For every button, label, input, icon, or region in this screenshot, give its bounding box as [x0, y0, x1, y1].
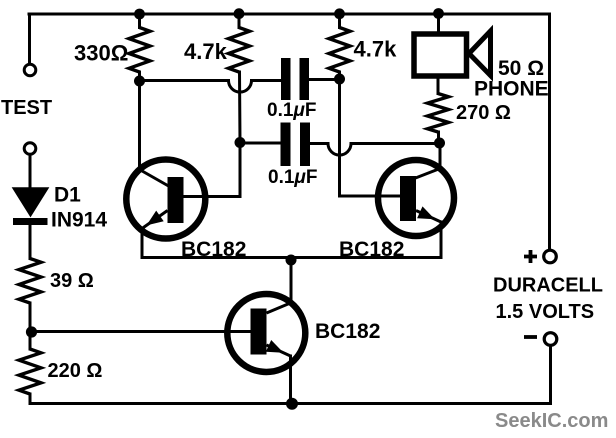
svg-text:220 Ω: 220 Ω	[48, 360, 103, 382]
junction dot top rail / R2	[234, 8, 245, 19]
junction dot top rail / phone	[433, 8, 444, 19]
junction dot node B	[134, 76, 145, 87]
wire phone top lead from rail	[437, 14, 440, 32]
transistor Q2 BC182	[378, 160, 454, 236]
wire from lower TEST terminal to diode	[29, 156, 32, 189]
wire - battery terminal down to bottom rail	[549, 346, 551, 404]
wire Q2 collector riser	[439, 143, 442, 169]
wire top supply rail	[29, 13, 550, 16]
junction dot top rail / 330	[134, 9, 145, 20]
junction dot node C R2/C2	[235, 137, 246, 148]
battery + terminal circle	[544, 250, 557, 263]
svg-text:4.7k: 4.7k	[184, 39, 228, 64]
svg-text:270 Ω: 270 Ω	[456, 102, 511, 124]
wire C1 right plate to node D	[310, 78, 340, 81]
battery + sign	[524, 250, 537, 263]
node A wire junction to Q3 base	[31, 330, 251, 333]
junction dot node A 39/220	[26, 326, 37, 337]
junction dot node E 270/Q2 collector	[434, 138, 445, 149]
svg-text:39 Ω: 39 Ω	[50, 270, 94, 292]
battery - terminal circle	[544, 333, 557, 346]
svg-text:PHONE: PHONE	[474, 78, 549, 101]
wire Q1 collector riser	[138, 81, 141, 170]
svg-text:BC182: BC182	[339, 238, 404, 261]
terminal TEST lower circle	[24, 143, 36, 155]
wire node C down and left to Q1 base	[183, 143, 240, 197]
wire Q1 emitter drop to bus	[141, 229, 144, 258]
wire 330 ohm top lead	[138, 14, 141, 28]
wire emitter bus	[143, 256, 442, 259]
svg-text:IN914: IN914	[51, 209, 107, 232]
wire C2 right plate to node E with hop over R3 line	[310, 144, 440, 156]
svg-text:BC182: BC182	[315, 320, 380, 343]
wire 270 ohm bottom to node E	[437, 132, 440, 143]
wire diode cathode to 39 ohm resistor	[29, 225, 32, 259]
battery - sign	[524, 335, 537, 339]
wire bus junction down to Q3 collector	[290, 258, 293, 303]
diode D1 cathode bar	[13, 218, 48, 225]
wire 4.7k R3 top lead	[338, 14, 341, 28]
svg-text:SeekIC.com: SeekIC.com	[495, 410, 608, 432]
wire bottom ground rail	[30, 402, 550, 405]
wire Q3 emitter to bottom rail	[289, 356, 292, 404]
resistor R5 39 ohm	[19, 259, 41, 304]
resistor R4 270 ohm	[428, 94, 449, 133]
phone speaker horn	[469, 31, 491, 76]
capacitor C1 0.1uF right plate	[300, 58, 310, 100]
svg-text:D1: D1	[54, 184, 81, 207]
svg-text:0.1μF: 0.1μF	[267, 100, 317, 121]
wire 4.7k R3 bottom lead through node D down to Q2 base	[340, 72, 401, 196]
capacitor C1 0.1uF left plate	[281, 58, 291, 100]
wire 330 ohm bottom lead to node B	[138, 72, 141, 81]
wire right rail down to + battery terminal	[548, 14, 551, 250]
svg-text:1.5 VOLTS: 1.5 VOLTS	[496, 301, 595, 323]
svg-text:0.1μF: 0.1μF	[268, 167, 318, 188]
junction dot node D C1/R3	[334, 74, 345, 85]
wire 39 ohm to 220 ohm through junction	[29, 303, 32, 349]
resistor R1 330 ohm	[129, 28, 150, 73]
wire node C to C2 left plate	[240, 142, 281, 145]
svg-text:330Ω: 330Ω	[74, 41, 128, 66]
terminal TEST upper circle	[24, 64, 36, 76]
resistor R3 4.7k	[329, 28, 350, 73]
wire 220 ohm bottom to bottom rail	[29, 394, 32, 404]
resistor R2 4.7k	[229, 28, 250, 73]
phone speaker box	[414, 34, 467, 76]
junction dot top rail / R3	[334, 8, 345, 19]
capacitor C2 0.1uF left plate	[281, 123, 291, 167]
wire 4.7k R2 bottom lead to node C	[238, 72, 242, 143]
transistor Q3 BC182	[227, 294, 305, 372]
junction dot emitter bus / Q3 collector	[286, 255, 297, 266]
svg-text:TEST: TEST	[1, 97, 52, 119]
wire Q2 emitter drop to bus	[440, 222, 443, 258]
resistor R6 220 ohm	[19, 349, 41, 394]
wire 4.7k R2 top lead	[238, 14, 241, 28]
wire node B to C1 left plate with hop over 4.7k line	[140, 81, 282, 93]
junction dot Q3 emitter / bottom rail	[286, 398, 298, 410]
svg-text:4.7k: 4.7k	[354, 37, 398, 62]
transistor Q1 BC182	[126, 160, 205, 239]
wire TEST drop from rail	[28, 14, 31, 64]
wire phone bottom to 270 ohm	[437, 79, 440, 94]
capacitor C2 0.1uF right plate	[300, 123, 310, 167]
svg-text:DURACELL: DURACELL	[493, 275, 603, 297]
diode D1 IN914 anode triangle	[13, 188, 48, 216]
svg-text:BC182: BC182	[181, 238, 246, 261]
